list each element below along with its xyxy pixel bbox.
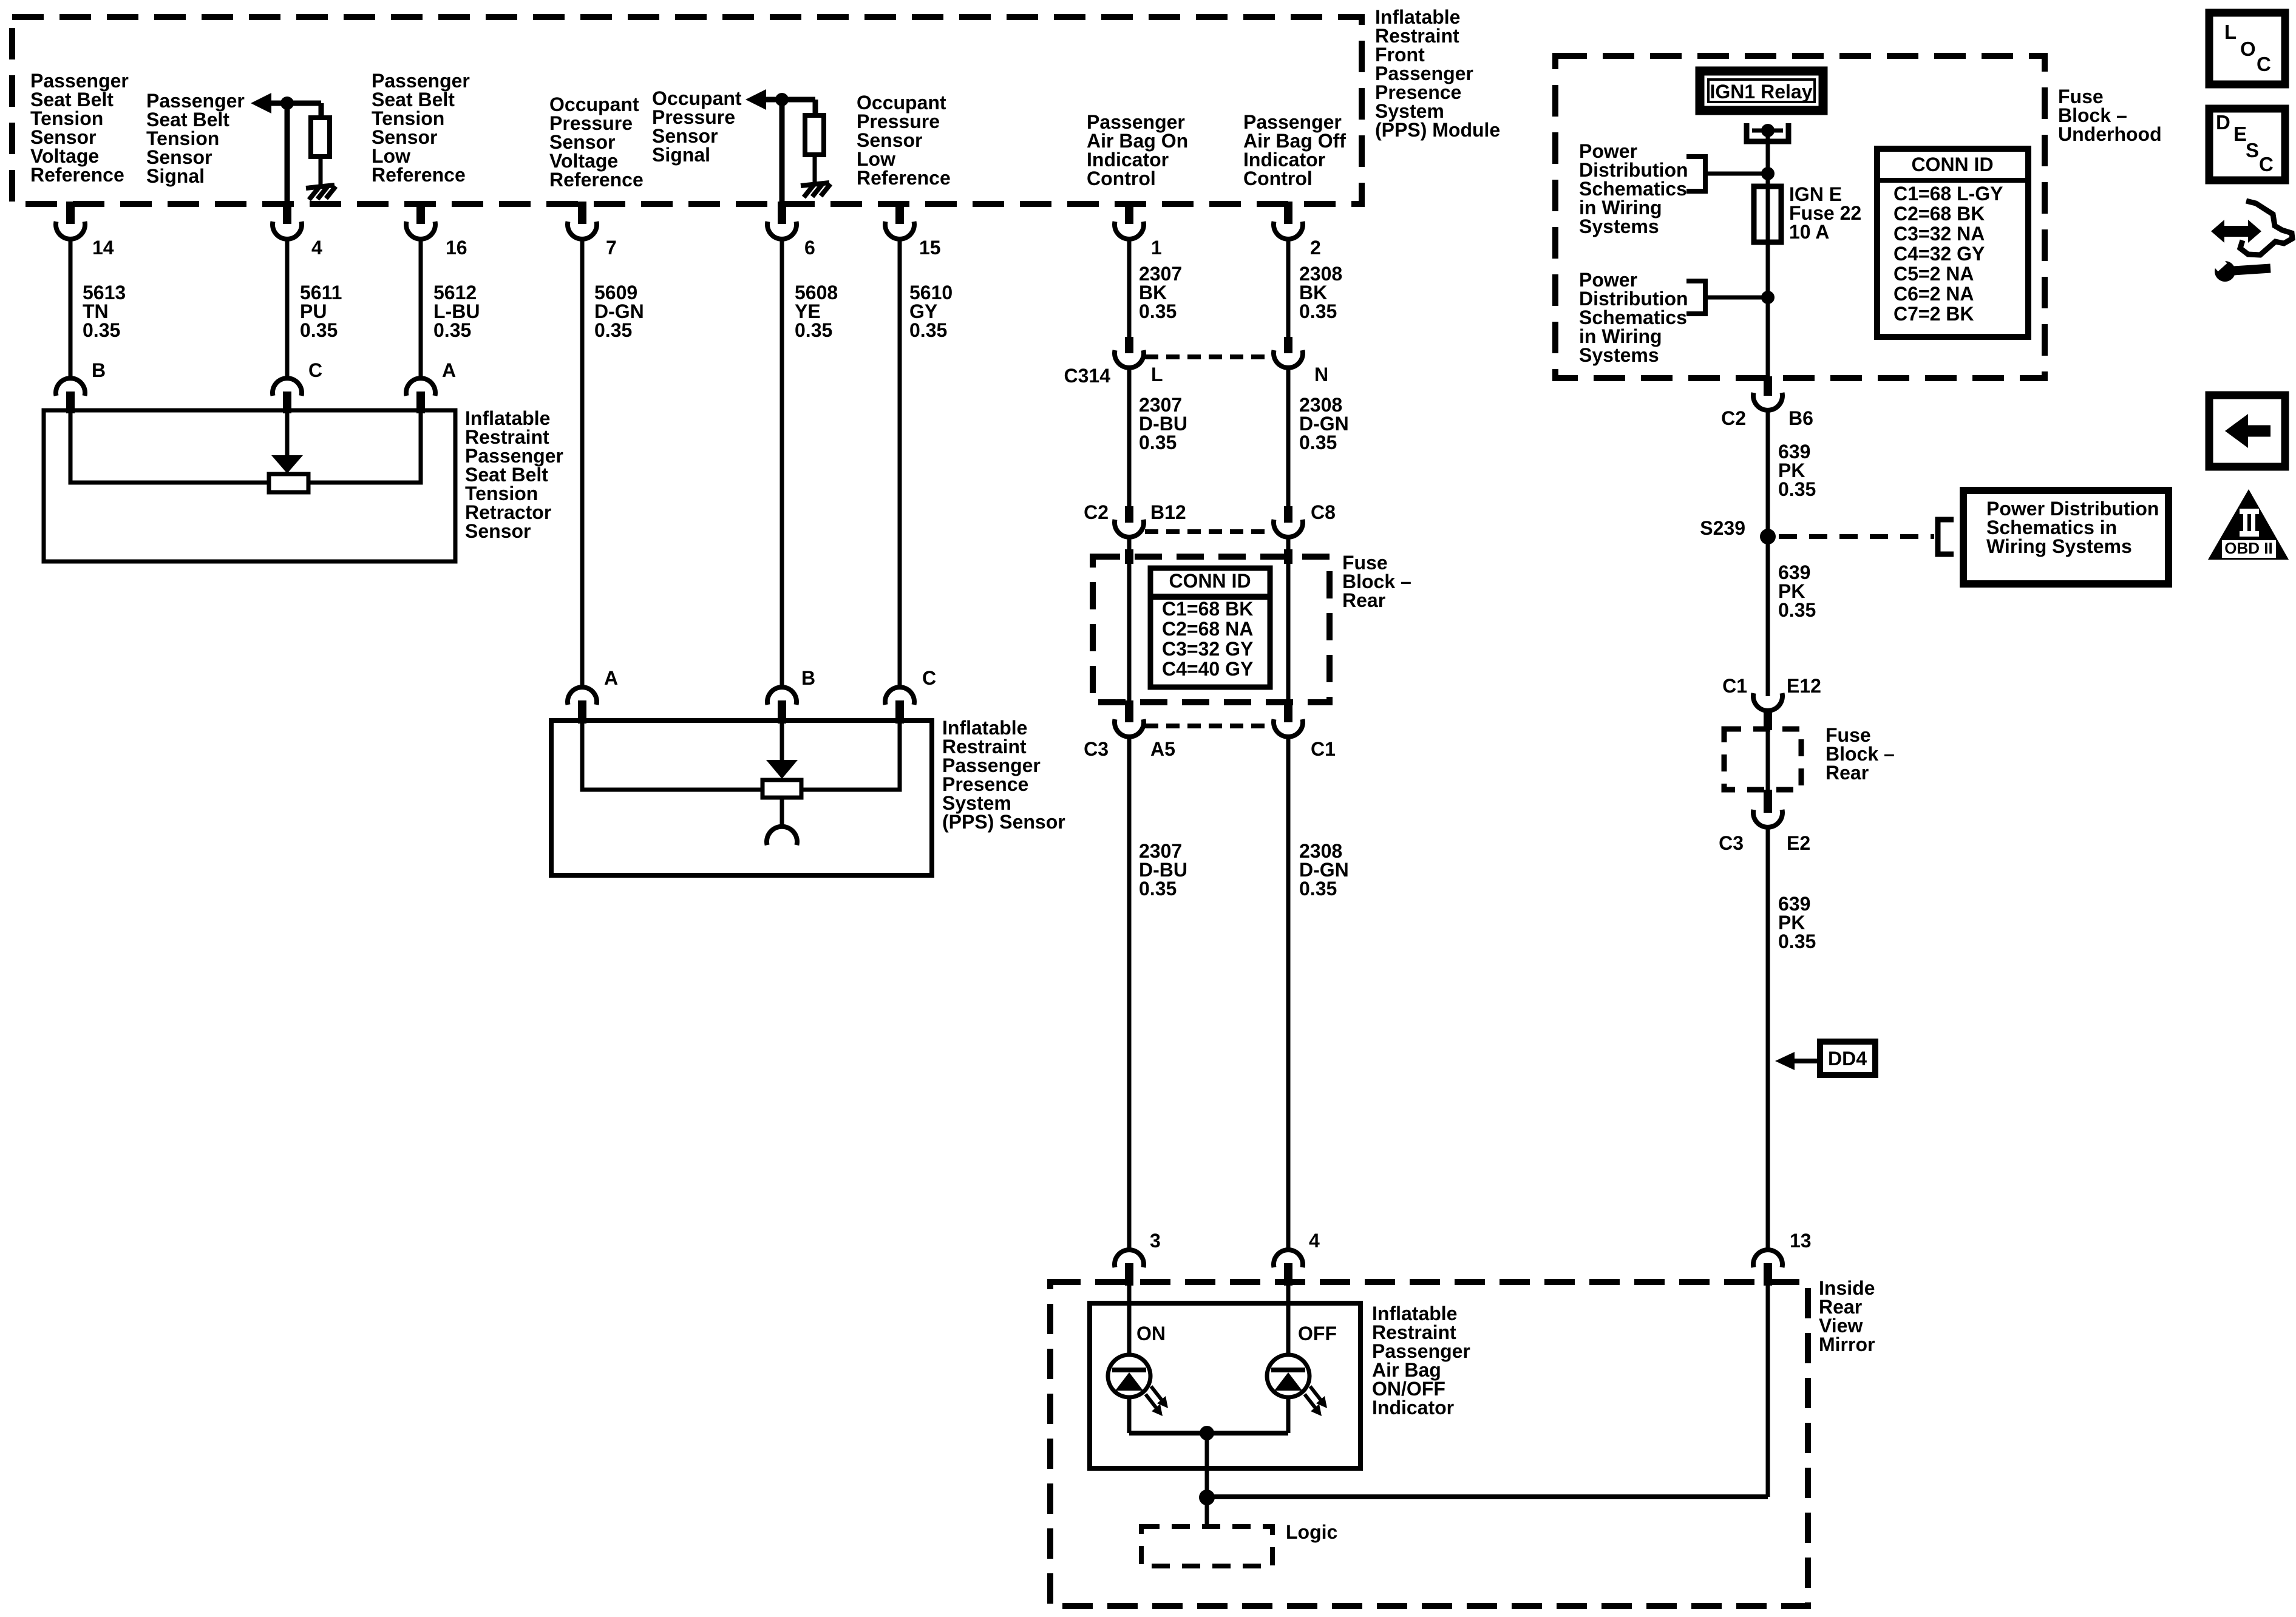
pin label: Occupant Pressure Sensor Low Reference <box>857 92 951 189</box>
pin label: Passenger Seat Belt Tension Sensor Voltage Reference <box>30 70 129 186</box>
wire 2308 D-GN (C314 to fuse block rear C8) <box>1286 367 1291 507</box>
connector pin 7 of PPS module <box>568 202 617 259</box>
wire 5612 L-BU (pin 16 to retractor A) <box>419 239 423 379</box>
svg-text:2: 2 <box>1310 237 1321 259</box>
svg-text:Reference: Reference <box>372 164 466 186</box>
OFF indicator LED lamp <box>1267 1323 1337 1416</box>
svg-text:0.35: 0.35 <box>1778 478 1816 500</box>
svg-text:0.35: 0.35 <box>1139 878 1177 900</box>
wire 639 PK (S239 to fuse block rear C1 E12) <box>1766 537 1770 696</box>
module label text <box>1375 6 1500 141</box>
svg-text:Indicator: Indicator <box>1372 1397 1454 1419</box>
svg-text:4: 4 <box>1309 1230 1320 1252</box>
PPS sensor terminal B <box>767 667 815 724</box>
module box: Inflatable Restraint Front Passenger Presence System (PPS) Module (dashed) <box>12 17 1362 204</box>
underhood connector C2 terminal B6 <box>1721 376 1813 429</box>
svg-text:E12: E12 <box>1787 675 1821 697</box>
svg-text:1: 1 <box>1151 237 1162 259</box>
box: Inflatable Restraint Passenger Seat Belt Tension Retractor Sensor <box>44 410 455 561</box>
wire pin 4 to OFF lamp <box>1286 1286 1291 1356</box>
wire from lamp common to pin 13 <box>1207 1286 1768 1497</box>
fuse IGN E Fuse 22 10 A <box>1754 183 1861 243</box>
Logic block (dashed) <box>1141 1521 1337 1566</box>
wire label 639 PK 0.35 (middle) <box>1778 561 1816 621</box>
svg-text:IGN1 Relay: IGN1 Relay <box>1710 81 1813 103</box>
wire label 2307 D-BU 0.35 (lower) <box>1139 840 1187 900</box>
svg-text:13: 13 <box>1790 1230 1812 1252</box>
wire label 2308 BK 0.35 <box>1299 263 1342 322</box>
pin label: Passenger Seat Belt Tension Sensor Signal <box>146 90 245 187</box>
svg-text:C: C <box>2259 153 2274 175</box>
Inside Rear View Mirror label <box>1819 1277 1875 1355</box>
svg-text:(PPS) Sensor: (PPS) Sensor <box>942 811 1065 833</box>
svg-text:ON: ON <box>1136 1323 1166 1344</box>
PPS sensor internal wiring, potentiometer and sensor plate <box>582 723 900 845</box>
box: Fuse Block - Rear (dashed) <box>1093 557 1330 702</box>
svg-text:0.35: 0.35 <box>1299 432 1337 453</box>
wire 5608 YE (pin 6 to PPS sensor B) <box>780 239 784 688</box>
svg-text:10 A: 10 A <box>1789 221 1829 243</box>
svg-text:15: 15 <box>919 237 941 259</box>
svg-text:C2: C2 <box>1721 407 1746 429</box>
svg-text:Reference: Reference <box>549 169 644 191</box>
wire 2308 BK (pin 2 to C314 N) <box>1286 239 1291 338</box>
seat-belt signal internal network: arrow, node, resistor, ground <box>251 93 336 204</box>
OBD II legend icon <box>2208 489 2289 560</box>
box: Fuse Block - Underhood (dashed) <box>1555 56 2045 378</box>
fuse block rear connector C2 terminal B12 <box>1084 501 1186 537</box>
wire label 5609 D-GN 0.35 <box>594 282 644 341</box>
wire 2307 D-BU (C314 to fuse block rear C2 B12) <box>1127 367 1132 507</box>
power distribution reference 1 label <box>1579 140 1688 237</box>
box: Fuse Block - Rear pass-through (dashed) <box>1724 729 1801 790</box>
svg-text:Signal: Signal <box>652 144 710 166</box>
CONN ID table of fuse block underhood <box>1877 149 2028 337</box>
ON indicator LED lamp <box>1108 1323 1168 1416</box>
svg-text:D: D <box>2216 111 2230 134</box>
fuse block rear connector C8 <box>1274 501 1336 537</box>
box: Inflatable Restraint Passenger Presence System (PPS) Sensor <box>551 720 932 875</box>
relay output terminal bracket <box>1747 123 1788 141</box>
svg-text:(PPS) Module: (PPS) Module <box>1375 119 1500 141</box>
svg-text:C1=68 BK: C1=68 BK <box>1162 598 1253 620</box>
connector pin 4 of PPS module <box>273 202 322 259</box>
IGN1 Relay box <box>1700 71 1823 110</box>
wire 5611 PU (pin 4 to retractor C) <box>285 239 290 379</box>
fuse block rear connector C3 terminal A5 <box>1084 700 1175 760</box>
svg-text:B: B <box>801 667 815 689</box>
wire label 2307 BK 0.35 <box>1139 263 1182 322</box>
wire 2307 BK (pin 1 to C314 L) <box>1127 239 1132 338</box>
svg-text:C2: C2 <box>1084 501 1109 523</box>
svg-text:B6: B6 <box>1788 407 1813 429</box>
Fuse Block - Underhood label <box>2058 86 2162 145</box>
svg-text:Signal: Signal <box>146 165 205 187</box>
svg-text:DD4: DD4 <box>1828 1048 1867 1070</box>
svg-text:OFF: OFF <box>1298 1323 1337 1344</box>
body repair double-arrow and wrench icon <box>2211 201 2292 282</box>
svg-text:E2: E2 <box>1787 832 1810 854</box>
wire through fuse block rear (left) <box>1127 537 1132 702</box>
LOC legend icon <box>2209 13 2285 84</box>
connector pin 15 of PPS module <box>885 202 941 259</box>
wire label 2308 D-GN 0.35 (lower) <box>1299 840 1349 900</box>
DD4 off-page reference arrow <box>1775 1042 1875 1075</box>
C3/C1 connector dashed link <box>1145 724 1272 728</box>
svg-text:Sensor: Sensor <box>465 520 531 542</box>
svg-text:14: 14 <box>92 237 114 259</box>
svg-text:Reference: Reference <box>857 167 951 189</box>
wire label 5611 PU 0.35 <box>300 282 342 341</box>
connector pin 6 of PPS module <box>767 202 815 259</box>
svg-text:16: 16 <box>446 237 467 259</box>
box: Inside Rear View Mirror (dashed) <box>1050 1282 1808 1606</box>
Fuse Block - Rear label <box>1342 552 1411 611</box>
wire label 2308 D-GN 0.35 <box>1299 394 1349 453</box>
svg-text:E: E <box>2233 123 2247 145</box>
svg-text:C1: C1 <box>1722 675 1747 697</box>
pin label: Occupant Pressure Sensor Voltage Reference <box>549 93 644 191</box>
wire label 5610 GY 0.35 <box>909 282 953 341</box>
box: Inflatable Restraint Passenger Air Bag ON/OFF Indicator <box>1090 1303 1360 1468</box>
PPS sensor terminal C <box>885 667 936 724</box>
svg-text:Wiring Systems: Wiring Systems <box>1986 535 2132 557</box>
fuse block rear connector C1 terminal E12 <box>1722 675 1821 730</box>
S239 dashed reference link and bracket <box>1779 520 1954 554</box>
svg-text:Control: Control <box>1087 168 1156 189</box>
svg-text:C3: C3 <box>1084 738 1109 760</box>
mirror connector pin 3 <box>1115 1230 1161 1286</box>
svg-text:7: 7 <box>606 237 617 259</box>
mirror connector pin 13 <box>1753 1230 1812 1286</box>
svg-text:C5=2 NA: C5=2 NA <box>1894 263 1974 285</box>
svg-text:C3=32 NA: C3=32 NA <box>1894 223 1985 245</box>
wire 5613 TN (pin 14 to retractor B) <box>69 239 73 379</box>
svg-text:3: 3 <box>1150 1230 1161 1252</box>
svg-text:C4=40 GY: C4=40 GY <box>1162 658 1253 680</box>
wire 639 PK (C2 B6 to S239) <box>1766 410 1770 537</box>
in-line connector C314 terminal N <box>1274 337 1328 385</box>
svg-text:OBD II: OBD II <box>2224 539 2272 557</box>
svg-text:C: C <box>2257 53 2271 75</box>
svg-text:0.35: 0.35 <box>433 319 471 341</box>
svg-text:O: O <box>2240 38 2256 60</box>
svg-text:CONN ID: CONN ID <box>1911 154 1993 175</box>
wire label 5612 L-BU 0.35 <box>433 282 480 341</box>
retractor sensor internal wiring and potentiometer <box>70 412 421 492</box>
svg-text:0.35: 0.35 <box>300 319 338 341</box>
wire 2307 D-BU (fuse block to mirror pin 3) <box>1127 737 1132 1250</box>
wire label 2307 D-BU 0.35 <box>1139 394 1187 453</box>
svg-text:C1=68 L-GY: C1=68 L-GY <box>1894 183 2003 205</box>
svg-text:0.35: 0.35 <box>1778 599 1816 621</box>
wire through fuse block rear (right) <box>1286 537 1291 702</box>
svg-text:0.35: 0.35 <box>1299 300 1337 322</box>
wire 5609 D-GN (pin 7 to PPS sensor A) <box>580 239 585 688</box>
svg-text:0.35: 0.35 <box>795 319 832 341</box>
power distribution reference 1 bracket and branch <box>1686 157 1775 191</box>
svg-text:C2=68 BK: C2=68 BK <box>1894 203 1985 225</box>
power distribution reference 2 bracket and branch <box>1686 281 1775 314</box>
connector pin 1 of PPS module <box>1115 202 1162 259</box>
svg-text:B12: B12 <box>1150 501 1186 523</box>
pin label: Passenger Air Bag On Indicator Control <box>1087 111 1188 189</box>
fuse block rear connector C1 <box>1274 700 1336 760</box>
power distribution reference 2 label <box>1579 269 1688 366</box>
svg-text:Logic: Logic <box>1286 1521 1337 1543</box>
svg-text:C6=2 NA: C6=2 NA <box>1894 283 1974 305</box>
retractor sensor terminal A <box>406 359 456 413</box>
wire label 5608 YE 0.35 <box>795 282 838 341</box>
svg-text:Systems: Systems <box>1579 344 1659 366</box>
svg-text:S: S <box>2246 139 2259 161</box>
C2/C8 connector dashed link <box>1145 529 1272 534</box>
svg-text:A5: A5 <box>1150 738 1175 760</box>
svg-text:Mirror: Mirror <box>1819 1334 1875 1355</box>
back arrow legend icon <box>2209 395 2285 467</box>
wire 2308 D-GN (fuse block to mirror pin 4) <box>1286 737 1291 1250</box>
in-line connector C314 terminal L <box>1115 337 1163 385</box>
wire relay to fuse block bottom <box>1766 131 1770 379</box>
svg-text:C7=2 BK: C7=2 BK <box>1894 303 1974 325</box>
svg-text:C3: C3 <box>1719 832 1744 854</box>
wire 5610 GY (pin 15 to PPS sensor C) <box>898 239 902 688</box>
splice S239 <box>1700 517 1776 544</box>
wire pin 3 to ON lamp <box>1127 1286 1132 1356</box>
mirror connector pin 4 <box>1274 1230 1320 1286</box>
connector pin 2 of PPS module <box>1274 202 1321 259</box>
indicator label <box>1372 1303 1470 1419</box>
svg-text:C2=68 NA: C2=68 NA <box>1162 618 1253 640</box>
svg-text:S239: S239 <box>1700 517 1745 539</box>
svg-text:Underhood: Underhood <box>2058 123 2162 145</box>
svg-text:A: A <box>604 667 618 689</box>
retractor sensor label <box>465 407 563 542</box>
lamp common output wiring <box>1129 1397 1288 1528</box>
svg-text:0.35: 0.35 <box>1139 300 1177 322</box>
svg-text:Rear: Rear <box>1342 589 1385 611</box>
DESC legend icon <box>2209 109 2285 180</box>
svg-text:C: C <box>308 359 322 381</box>
svg-text:N: N <box>1314 364 1328 385</box>
Fuse Block - Rear pass-through label <box>1826 724 1895 784</box>
svg-text:C4=32 GY: C4=32 GY <box>1894 243 1985 265</box>
svg-text:0.35: 0.35 <box>594 319 632 341</box>
svg-text:6: 6 <box>804 237 815 259</box>
wire label 639 PK 0.35 (lower) <box>1778 893 1816 952</box>
pin label: Occupant Pressure Sensor Signal <box>652 87 742 166</box>
retractor sensor terminal B <box>56 359 106 413</box>
svg-text:C8: C8 <box>1311 501 1336 523</box>
occupant-pressure signal internal network: arrow, node, resistor, ground <box>746 89 830 204</box>
svg-text:A: A <box>442 359 456 381</box>
svg-text:Reference: Reference <box>30 164 124 186</box>
pin label: Passenger Seat Belt Tension Sensor Low Reference <box>372 70 470 186</box>
svg-text:C314: C314 <box>1064 365 1111 387</box>
fuse block rear connector C3 terminal E2 <box>1719 790 1810 854</box>
retractor sensor terminal C <box>273 359 322 413</box>
wire label 5613 TN 0.35 <box>83 282 126 341</box>
connector pin 14 of PPS module <box>56 202 114 259</box>
svg-text:L: L <box>2224 21 2237 43</box>
svg-text:0.35: 0.35 <box>909 319 947 341</box>
svg-text:4: 4 <box>311 237 322 259</box>
PPS sensor terminal A <box>568 667 618 724</box>
connector pin 16 of PPS module <box>406 202 467 259</box>
wire 639 PK (C3 E2 to mirror pin 13) <box>1766 827 1770 1250</box>
svg-text:0.35: 0.35 <box>1299 878 1337 900</box>
svg-text:Systems: Systems <box>1579 215 1659 237</box>
C314 connector dashed link and name <box>1064 357 1273 387</box>
svg-text:CONN ID: CONN ID <box>1169 570 1251 592</box>
svg-text:Control: Control <box>1243 168 1313 189</box>
svg-text:C1: C1 <box>1311 738 1336 760</box>
svg-text:C3=32 GY: C3=32 GY <box>1162 638 1253 660</box>
svg-text:Rear: Rear <box>1826 762 1869 784</box>
svg-text:L: L <box>1151 364 1163 385</box>
svg-text:0.35: 0.35 <box>1778 931 1816 952</box>
svg-text:0.35: 0.35 <box>1139 432 1177 453</box>
svg-text:0.35: 0.35 <box>83 319 120 341</box>
CONN ID table of fuse block rear <box>1150 568 1270 687</box>
PPS sensor label <box>942 717 1065 833</box>
wire label 639 PK 0.35 (upper) <box>1778 441 1816 500</box>
svg-text:B: B <box>92 359 106 381</box>
svg-text:C: C <box>922 667 936 689</box>
pin label: Passenger Air Bag Off Indicator Control <box>1243 111 1346 189</box>
Power Distribution Schematics in Wiring Systems reference box <box>1963 490 2169 584</box>
